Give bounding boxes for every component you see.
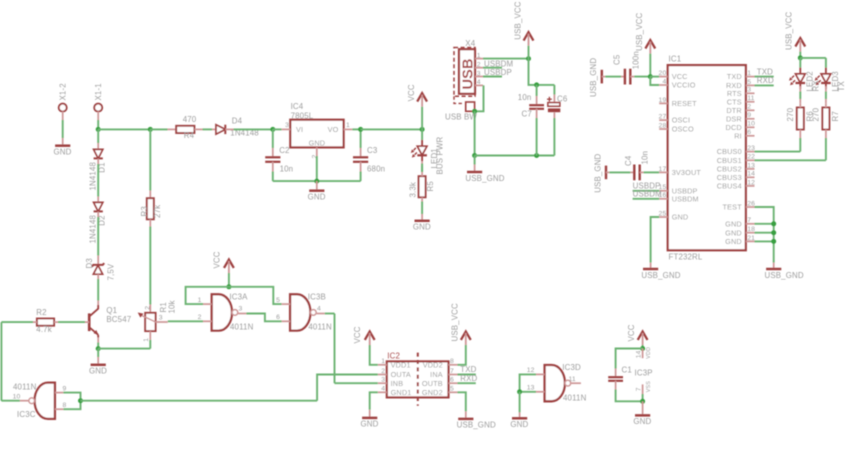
svg-text:7805L: 7805L xyxy=(291,111,314,120)
svg-text:22: 22 xyxy=(747,154,755,161)
vcc arrow xyxy=(353,326,374,345)
svg-text:IC2: IC2 xyxy=(387,352,400,361)
svg-text:USB_VCC: USB_VCC xyxy=(514,1,523,39)
wire xyxy=(755,207,774,263)
wire xyxy=(97,120,99,129)
svg-text:C5: C5 xyxy=(613,54,622,65)
led LED3 xyxy=(815,68,846,92)
svg-text:21: 21 xyxy=(747,235,755,242)
svg-text:270: 270 xyxy=(812,107,821,121)
wire xyxy=(212,128,216,130)
svg-text:3V3OUT: 3V3OUT xyxy=(672,168,702,177)
nand gate IC3B xyxy=(276,292,332,331)
svg-text:2: 2 xyxy=(198,314,202,321)
svg-text:GND1: GND1 xyxy=(391,388,412,397)
svg-text:VO: VO xyxy=(328,125,339,134)
svg-text:OUTA: OUTA xyxy=(391,370,411,379)
net label TXD xyxy=(458,365,477,374)
usb shield box xyxy=(445,96,477,121)
capacitor C3 xyxy=(353,129,385,181)
ground USB_GND xyxy=(465,172,504,183)
svg-text:5: 5 xyxy=(450,386,454,393)
wire xyxy=(642,345,644,349)
wire xyxy=(755,151,801,153)
svg-text:USB_VCC: USB_VCC xyxy=(635,13,644,51)
svg-text:2: 2 xyxy=(381,368,385,375)
ground USB_GND sideways xyxy=(594,153,607,192)
nand gate IC3C xyxy=(13,382,67,419)
node junction xyxy=(78,398,83,403)
svg-text:GND: GND xyxy=(54,148,72,157)
svg-text:GND: GND xyxy=(725,228,742,237)
vcc arrow xyxy=(627,324,647,345)
usb connector X4 xyxy=(454,39,483,96)
net label USBDP xyxy=(483,68,512,77)
svg-text:3: 3 xyxy=(285,122,289,129)
svg-text:INA: INA xyxy=(430,370,443,379)
svg-text:IC4: IC4 xyxy=(291,102,304,111)
svg-text:USB_VCC: USB_VCC xyxy=(785,12,794,50)
wire xyxy=(458,345,466,365)
svg-text:2: 2 xyxy=(477,62,481,69)
svg-text:4011N: 4011N xyxy=(308,323,332,332)
svg-text:IC3D: IC3D xyxy=(562,363,581,372)
svg-text:2: 2 xyxy=(747,104,751,111)
svg-text:USB: USB xyxy=(460,58,476,89)
wire xyxy=(194,128,202,130)
svg-text:1: 1 xyxy=(747,70,751,77)
wire xyxy=(149,219,151,226)
wire xyxy=(421,202,423,215)
node junction xyxy=(640,399,645,404)
svg-text:14: 14 xyxy=(636,350,643,358)
wire xyxy=(650,77,659,85)
svg-text:GND: GND xyxy=(309,138,326,147)
node junction xyxy=(472,109,477,114)
svg-text:1: 1 xyxy=(381,358,385,365)
wire xyxy=(1,400,20,402)
ground xyxy=(510,418,528,429)
svg-text:X1-1: X1-1 xyxy=(94,83,103,100)
ic IC1 pins xyxy=(659,70,756,246)
wire xyxy=(520,374,536,391)
wire xyxy=(62,138,64,146)
capacitor C5 xyxy=(602,51,651,84)
svg-text:4011N: 4011N xyxy=(230,323,254,332)
svg-text:17: 17 xyxy=(659,166,667,173)
wire xyxy=(316,181,318,191)
wire xyxy=(62,120,64,138)
wire xyxy=(755,159,826,161)
wire xyxy=(316,156,318,181)
wire xyxy=(519,412,521,418)
wire xyxy=(799,58,801,68)
svg-text:X4: X4 xyxy=(465,39,475,48)
svg-text:26: 26 xyxy=(747,200,755,207)
wire xyxy=(519,392,521,413)
svg-text:10: 10 xyxy=(747,121,755,128)
wire xyxy=(474,111,476,155)
led LED2 xyxy=(789,68,820,92)
ic U IC2 xyxy=(387,352,449,406)
svg-text:IC3P: IC3P xyxy=(635,369,653,378)
svg-text:1N4148: 1N4148 xyxy=(88,214,97,243)
svg-text:14: 14 xyxy=(747,171,755,178)
ic power IC3P xyxy=(635,347,653,394)
svg-text:28: 28 xyxy=(659,122,667,129)
svg-text:OSCO: OSCO xyxy=(672,125,694,134)
svg-text:C1: C1 xyxy=(622,366,632,375)
node junction xyxy=(640,346,645,351)
svg-text:3: 3 xyxy=(159,314,163,321)
svg-text:4: 4 xyxy=(317,306,321,313)
wire xyxy=(63,401,80,410)
wire xyxy=(465,411,467,419)
svg-text:TXD: TXD xyxy=(460,365,476,374)
net label USBDM xyxy=(483,59,513,68)
wire xyxy=(799,52,801,58)
node junction xyxy=(270,127,275,132)
wire xyxy=(529,59,555,85)
wire xyxy=(755,223,774,225)
wire xyxy=(421,164,423,173)
wire xyxy=(186,287,229,304)
wire xyxy=(203,128,213,130)
svg-text:7: 7 xyxy=(747,217,751,224)
svg-text:6: 6 xyxy=(450,377,454,384)
svg-text:8: 8 xyxy=(450,358,454,365)
wire xyxy=(150,128,167,130)
wire xyxy=(825,86,827,91)
svg-text:GND: GND xyxy=(89,367,107,376)
svg-text:R2: R2 xyxy=(36,308,46,317)
wire xyxy=(642,394,644,401)
svg-text:4.7k: 4.7k xyxy=(36,325,52,334)
wire xyxy=(325,313,335,315)
ground USB_GND xyxy=(641,269,680,280)
svg-text:VI: VI xyxy=(296,125,303,134)
ground USB_GND xyxy=(765,269,804,280)
svg-text:GND: GND xyxy=(308,193,326,202)
ground xyxy=(54,146,72,157)
node junction xyxy=(798,55,803,60)
svg-text:19: 19 xyxy=(659,97,667,104)
svg-text:3: 3 xyxy=(747,87,751,94)
capacitor C2 xyxy=(265,129,293,181)
svg-text:5: 5 xyxy=(276,297,280,304)
svg-text:GND: GND xyxy=(633,417,651,426)
wire xyxy=(370,345,378,365)
diode D1 xyxy=(88,149,106,190)
wire xyxy=(800,57,826,59)
usb_vcc arrow xyxy=(450,303,470,345)
svg-text:CBUS4: CBUS4 xyxy=(717,182,742,191)
svg-text:IC3A: IC3A xyxy=(229,292,248,301)
wire xyxy=(273,180,361,182)
wire xyxy=(483,58,529,60)
wire xyxy=(825,99,827,103)
wire xyxy=(421,166,423,172)
svg-text:270: 270 xyxy=(786,107,795,121)
wire xyxy=(97,212,99,217)
wire xyxy=(649,54,651,77)
connector X1-2 xyxy=(59,83,68,120)
svg-text:25: 25 xyxy=(659,210,667,217)
svg-text:1: 1 xyxy=(198,297,202,304)
ground USB_GND sideways xyxy=(589,58,602,97)
wire xyxy=(81,400,318,402)
svg-text:Q1: Q1 xyxy=(106,306,117,315)
svg-text:5: 5 xyxy=(747,79,751,86)
wire xyxy=(799,92,801,100)
wire xyxy=(651,217,660,263)
svg-text:USB BW: USB BW xyxy=(445,112,477,121)
svg-text:11: 11 xyxy=(747,95,754,102)
wire xyxy=(225,128,233,130)
svg-text:4: 4 xyxy=(662,78,666,85)
svg-text:3: 3 xyxy=(381,377,385,384)
svg-text:7,5V: 7,5V xyxy=(107,263,116,280)
wire xyxy=(799,138,801,152)
wire xyxy=(97,143,99,149)
wire xyxy=(98,348,150,350)
node junction xyxy=(517,389,522,394)
svg-text:VSS: VSS xyxy=(646,381,652,392)
ground xyxy=(89,365,107,376)
svg-text:4: 4 xyxy=(477,79,481,86)
wire xyxy=(334,314,336,384)
svg-text:27: 27 xyxy=(659,114,667,121)
svg-text:1: 1 xyxy=(346,122,350,129)
svg-text:GND2: GND2 xyxy=(422,388,443,397)
svg-text:10n: 10n xyxy=(518,93,532,102)
wire xyxy=(97,343,99,349)
svg-text:C7: C7 xyxy=(522,110,532,119)
node junction xyxy=(534,82,539,87)
svg-text:100n: 100n xyxy=(632,51,641,69)
vcc arrow xyxy=(213,251,234,273)
wire xyxy=(475,155,555,157)
svg-text:USB_GND: USB_GND xyxy=(457,421,496,430)
wire xyxy=(799,86,801,91)
svg-text:USB_GND: USB_GND xyxy=(765,271,804,280)
svg-text:3: 3 xyxy=(239,306,243,313)
svg-text:TEST: TEST xyxy=(723,203,743,212)
wire xyxy=(168,128,177,130)
wire xyxy=(369,410,371,418)
svg-text:1: 1 xyxy=(143,338,150,342)
svg-text:6: 6 xyxy=(747,129,751,136)
resistor R2 xyxy=(36,308,54,334)
wire xyxy=(246,314,281,322)
wire xyxy=(825,58,827,68)
svg-text:4011N: 4011N xyxy=(13,382,37,391)
svg-text:USB_GND: USB_GND xyxy=(641,271,680,280)
svg-text:10k: 10k xyxy=(167,300,176,313)
svg-text:USB_GND: USB_GND xyxy=(589,58,598,97)
node junction xyxy=(771,230,776,235)
resistor R6 xyxy=(786,103,815,138)
svg-text:4: 4 xyxy=(381,386,385,393)
svg-text:IC3C: IC3C xyxy=(17,410,36,419)
svg-text:D3: D3 xyxy=(85,258,94,269)
svg-text:VDD1: VDD1 xyxy=(391,360,411,369)
node junction xyxy=(96,127,101,132)
usb_vcc arrow xyxy=(785,12,806,52)
ground xyxy=(361,418,379,429)
svg-text:1: 1 xyxy=(477,52,481,59)
wire xyxy=(520,391,536,393)
node junction xyxy=(314,179,319,184)
wire xyxy=(149,227,151,305)
wire xyxy=(421,214,423,221)
net label USBDM at IC1 xyxy=(633,190,662,199)
svg-text:10: 10 xyxy=(13,394,21,401)
svg-text:USBDM: USBDM xyxy=(672,194,699,203)
svg-text:18: 18 xyxy=(747,226,755,233)
svg-text:TXD: TXD xyxy=(727,72,742,81)
wire xyxy=(317,375,378,401)
svg-text:C2: C2 xyxy=(279,146,289,155)
net label RXD xyxy=(458,374,478,383)
capacitor C4 xyxy=(606,151,659,180)
ground xyxy=(633,415,651,426)
svg-text:12: 12 xyxy=(747,179,755,186)
svg-text:R5: R5 xyxy=(426,181,435,192)
svg-text:7: 7 xyxy=(450,368,454,375)
svg-text:20: 20 xyxy=(659,70,667,77)
potentiometer R1 xyxy=(138,300,177,341)
transistor Q1 xyxy=(89,301,131,343)
svg-text:GND: GND xyxy=(413,223,431,232)
resistor R4 xyxy=(176,115,197,140)
svg-text:3.3k: 3.3k xyxy=(409,182,418,198)
wire xyxy=(97,164,99,197)
wire xyxy=(58,321,85,323)
wire xyxy=(273,128,282,130)
svg-text:VCC: VCC xyxy=(627,324,636,341)
svg-text:R4: R4 xyxy=(184,131,195,140)
wire xyxy=(168,320,203,322)
svg-text:IC1: IC1 xyxy=(669,55,682,64)
net label USBDP at IC1 xyxy=(633,182,661,191)
wire xyxy=(97,274,99,279)
svg-text:IC3B: IC3B xyxy=(308,292,326,301)
capacitor C7 xyxy=(518,85,544,156)
wire xyxy=(528,46,530,59)
svg-text:RXD: RXD xyxy=(757,76,774,85)
node junction xyxy=(534,153,539,158)
svg-text:6: 6 xyxy=(276,314,280,321)
svg-text:GND: GND xyxy=(361,420,379,429)
svg-text:1N4148: 1N4148 xyxy=(88,161,97,190)
nand gate IC3A xyxy=(198,292,254,331)
net label TXD at IC1 xyxy=(755,67,774,76)
svg-text:9: 9 xyxy=(747,112,751,119)
wire xyxy=(149,191,151,199)
wire xyxy=(650,76,659,78)
wire xyxy=(149,340,151,349)
wire xyxy=(0,322,2,401)
svg-text:TX: TX xyxy=(837,81,846,92)
wire xyxy=(97,279,99,301)
svg-text:4011N: 4011N xyxy=(563,393,587,402)
wire xyxy=(335,382,378,384)
svg-text:GND: GND xyxy=(725,237,742,246)
wire xyxy=(149,129,151,190)
svg-text:TXD: TXD xyxy=(757,67,773,76)
wire xyxy=(475,85,484,111)
node junction xyxy=(420,127,425,132)
svg-text:BC547: BC547 xyxy=(106,315,131,324)
svg-text:RI: RI xyxy=(734,131,742,140)
led LED1 xyxy=(411,136,445,174)
vcc arrow xyxy=(407,84,427,107)
svg-text:R3: R3 xyxy=(140,206,149,217)
svg-text:D4: D4 xyxy=(232,116,243,125)
wire xyxy=(33,321,37,323)
svg-text:R7: R7 xyxy=(831,111,840,121)
svg-text:470: 470 xyxy=(183,115,197,124)
node junction xyxy=(771,221,776,226)
usb_vcc arrow xyxy=(514,1,534,45)
node junction xyxy=(648,74,653,79)
wire xyxy=(97,197,99,203)
wire xyxy=(228,273,230,287)
svg-text:INB: INB xyxy=(391,379,404,388)
svg-text:27k: 27k xyxy=(153,205,162,218)
svg-text:23: 23 xyxy=(747,145,755,152)
wire xyxy=(97,256,99,265)
svg-text:BUS PWR: BUS PWR xyxy=(435,136,444,174)
svg-text:C3: C3 xyxy=(367,146,378,155)
wire xyxy=(63,393,80,401)
wire xyxy=(85,321,89,323)
wire xyxy=(458,392,466,411)
wire xyxy=(755,232,774,234)
wire xyxy=(755,240,774,242)
ground xyxy=(413,221,431,232)
wire xyxy=(370,392,378,410)
usb_vcc arrow xyxy=(635,13,655,54)
wire xyxy=(361,128,423,130)
svg-text:USBDM: USBDM xyxy=(484,59,513,68)
node junction xyxy=(226,284,231,289)
wire xyxy=(799,99,801,103)
svg-text:VCC: VCC xyxy=(407,84,416,101)
svg-text:2: 2 xyxy=(144,306,151,310)
wire xyxy=(352,128,360,130)
svg-text:VDD: VDD xyxy=(646,347,652,359)
node junction xyxy=(358,127,363,132)
svg-text:CBUS0: CBUS0 xyxy=(717,147,742,156)
resistor R5 xyxy=(409,172,436,202)
svg-text:7: 7 xyxy=(636,387,643,391)
svg-text:X1-2: X1-2 xyxy=(59,83,68,100)
svg-text:10n: 10n xyxy=(280,164,294,173)
svg-text:680n: 680n xyxy=(367,164,385,173)
zener diode D3 xyxy=(85,258,116,281)
svg-text:USB_GND: USB_GND xyxy=(465,174,504,183)
svg-text:C4: C4 xyxy=(624,155,633,166)
svg-text:VCC: VCC xyxy=(353,326,362,343)
capacitor C6 polarized xyxy=(547,85,568,156)
wire xyxy=(97,349,99,357)
wire xyxy=(421,129,423,140)
wire xyxy=(421,107,423,130)
node junction xyxy=(472,153,477,158)
ground USB_GND xyxy=(457,419,496,430)
